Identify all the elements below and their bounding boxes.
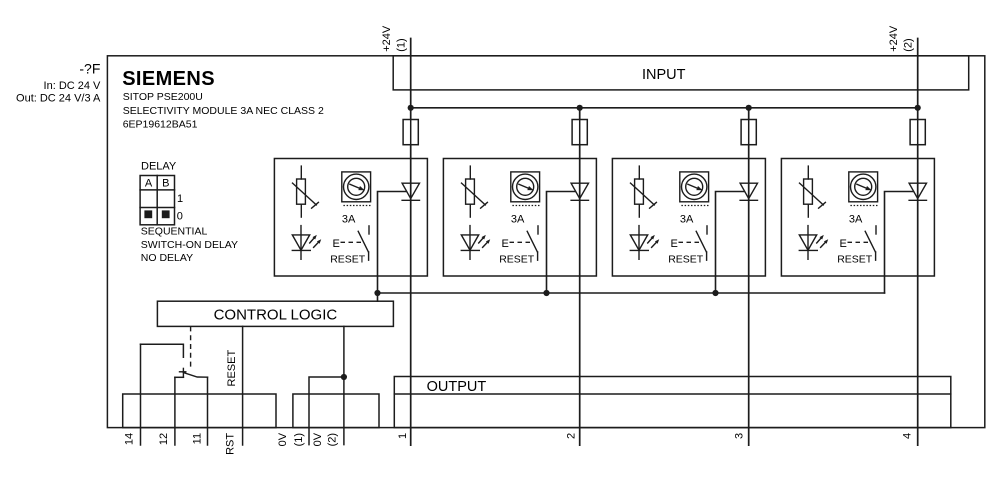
wire input distribution bus <box>411 107 918 109</box>
LED D3a status indicator <box>630 226 659 260</box>
terminal strip box (0V terminals) <box>293 394 379 428</box>
electronic breaker Q1 <box>293 166 319 217</box>
electronic breaker Q2 <box>462 166 488 217</box>
terminal strip box (signalling contacts 14/12/11/RST) <box>123 394 276 428</box>
rotary current selector S2 <box>511 172 541 206</box>
diode D4 <box>909 183 926 200</box>
wire RESET input <box>242 326 244 445</box>
wire terminal 12 <box>175 376 184 378</box>
wire diode anode to status bus channel 4 <box>885 192 914 294</box>
net label +24V (2) <box>888 25 915 52</box>
svg-text:SITOP PSE200U: SITOP PSE200U <box>123 91 203 103</box>
svg-text:3A: 3A <box>511 213 525 225</box>
electronic breaker Q4 <box>800 166 826 217</box>
svg-text:E: E <box>671 238 678 250</box>
svg-text:B: B <box>162 178 169 190</box>
wire +24V supply channel 4 (vertical) <box>917 39 919 446</box>
svg-text:1: 1 <box>177 193 183 205</box>
INPUT terminal block box <box>393 56 969 90</box>
reset switch contact channel 2 <box>527 226 538 260</box>
dashed actuator link channel 1 <box>341 241 362 243</box>
junction input bus / channel 4 <box>915 105 921 111</box>
svg-text:OUTPUT: OUTPUT <box>427 379 487 395</box>
electronic breaker Q3 <box>631 166 657 217</box>
svg-text:0V: 0V <box>277 432 289 446</box>
wire +24V supply channel 1 (vertical) <box>410 39 412 446</box>
svg-text:Out: DC 24 V/3 A: Out: DC 24 V/3 A <box>16 93 101 105</box>
diode D3 <box>740 183 757 200</box>
LED D1a status indicator <box>292 226 321 260</box>
fuse F4 <box>910 120 925 145</box>
dashed actuator link channel 2 <box>510 241 531 243</box>
junction status bus / channel 3 <box>712 290 718 296</box>
svg-text:+24V: +24V <box>381 25 393 52</box>
wire terminal 14 <box>141 344 184 357</box>
rotary current selector S1 <box>342 172 372 206</box>
svg-text:3A: 3A <box>849 213 863 225</box>
svg-text:RESET: RESET <box>226 350 238 387</box>
DIP switch A position marker <box>144 210 152 218</box>
rotary current selector S3 <box>680 172 710 206</box>
reset switch contact channel 4 <box>865 226 876 260</box>
svg-text:SWITCH-ON DELAY: SWITCH-ON DELAY <box>141 239 238 251</box>
DIP switch B position marker <box>162 210 170 218</box>
svg-text:E: E <box>840 238 847 250</box>
svg-text:INPUT: INPUT <box>642 67 686 83</box>
svg-text:3A: 3A <box>680 213 694 225</box>
rotary current selector S4 <box>849 172 879 206</box>
reset switch contact channel 3 <box>696 226 707 260</box>
svg-text:6EP19612BA51: 6EP19612BA51 <box>123 118 198 130</box>
svg-text:+24V: +24V <box>888 25 900 52</box>
svg-text:RST: RST <box>225 433 237 455</box>
LED D2a status indicator <box>461 226 490 260</box>
diode D2 <box>571 183 588 200</box>
svg-text:(1): (1) <box>293 433 305 446</box>
CONTROL LOGIC block U1 <box>157 301 393 326</box>
junction status bus / channel 1 <box>374 290 380 296</box>
wire 0V (2) from control logic <box>343 326 345 444</box>
svg-text:1: 1 <box>397 433 409 439</box>
svg-text:0: 0 <box>177 211 183 223</box>
wire +24V supply channel 2 (vertical) <box>579 108 581 445</box>
svg-text:12: 12 <box>158 433 170 445</box>
svg-text:SELECTIVITY MODULE 3A NEC CLAS: SELECTIVITY MODULE 3A NEC CLASS 2 <box>123 105 324 117</box>
svg-text:A: A <box>145 178 153 190</box>
channel module CH2 box <box>443 159 596 277</box>
svg-text:SEQUENTIAL: SEQUENTIAL <box>141 226 208 238</box>
junction 0V node <box>341 374 347 380</box>
diode D1 <box>402 183 419 200</box>
DIP switch table S1 <box>140 176 174 225</box>
svg-text:(2): (2) <box>326 433 338 446</box>
dashed actuator link channel 4 <box>848 241 869 243</box>
wire diode anode to status bus channel 3 <box>716 192 745 294</box>
junction input bus / channel 1 <box>408 105 414 111</box>
channel module CH1 box <box>274 159 427 277</box>
junction input bus / channel 3 <box>746 105 752 111</box>
fuse F2 <box>572 120 587 145</box>
wire terminal 11 <box>207 377 209 445</box>
svg-text:14: 14 <box>124 433 136 445</box>
wire +24V supply channel 3 (vertical) <box>748 108 750 445</box>
svg-text:-?F: -?F <box>79 61 100 77</box>
dashed actuator link channel 3 <box>679 241 700 243</box>
svg-text:(2): (2) <box>903 38 915 51</box>
relay changeover contact K1 <box>180 368 208 377</box>
svg-text:11: 11 <box>192 433 204 444</box>
svg-text:In: DC 24 V: In: DC 24 V <box>44 80 102 92</box>
wire diode anode to status bus channel 1 <box>378 192 407 294</box>
channel module CH4 box <box>781 159 934 277</box>
svg-text:2: 2 <box>566 433 578 439</box>
module enclosure outline -?F <box>107 56 984 428</box>
svg-text:RESET: RESET <box>499 254 535 266</box>
wire status bus to control logic <box>378 292 885 294</box>
svg-text:CONTROL LOGIC: CONTROL LOGIC <box>214 307 338 324</box>
svg-text:3A: 3A <box>342 213 356 225</box>
net label +24V (1) <box>381 25 408 52</box>
OUTPUT terminal block box <box>394 377 951 428</box>
svg-text:E: E <box>333 238 340 250</box>
reset switch contact channel 1 <box>358 226 369 260</box>
dashed relay actuation link <box>190 326 192 368</box>
svg-text:DELAY: DELAY <box>141 161 177 173</box>
junction input bus / channel 2 <box>577 105 583 111</box>
channel module CH3 box <box>612 159 765 277</box>
svg-text:SIEMENS: SIEMENS <box>122 68 215 90</box>
OUTPUT box divider line <box>394 393 951 395</box>
svg-text:0V: 0V <box>312 432 324 446</box>
svg-text:RESET: RESET <box>668 254 704 266</box>
svg-text:RESET: RESET <box>837 254 873 266</box>
LED D4a status indicator <box>799 226 828 260</box>
wire status bus drop into control logic <box>377 293 379 301</box>
svg-text:4: 4 <box>901 433 913 439</box>
svg-text:(1): (1) <box>396 38 408 51</box>
wire diode anode to status bus channel 2 <box>547 192 576 294</box>
svg-text:E: E <box>502 238 509 250</box>
svg-text:NO DELAY: NO DELAY <box>141 252 193 264</box>
wire 0V (1) <box>309 377 344 445</box>
fuse F3 <box>741 120 756 145</box>
svg-text:RESET: RESET <box>330 254 366 266</box>
svg-text:3: 3 <box>733 433 745 439</box>
fuse F1 <box>403 120 418 145</box>
junction status bus / channel 2 <box>543 290 549 296</box>
